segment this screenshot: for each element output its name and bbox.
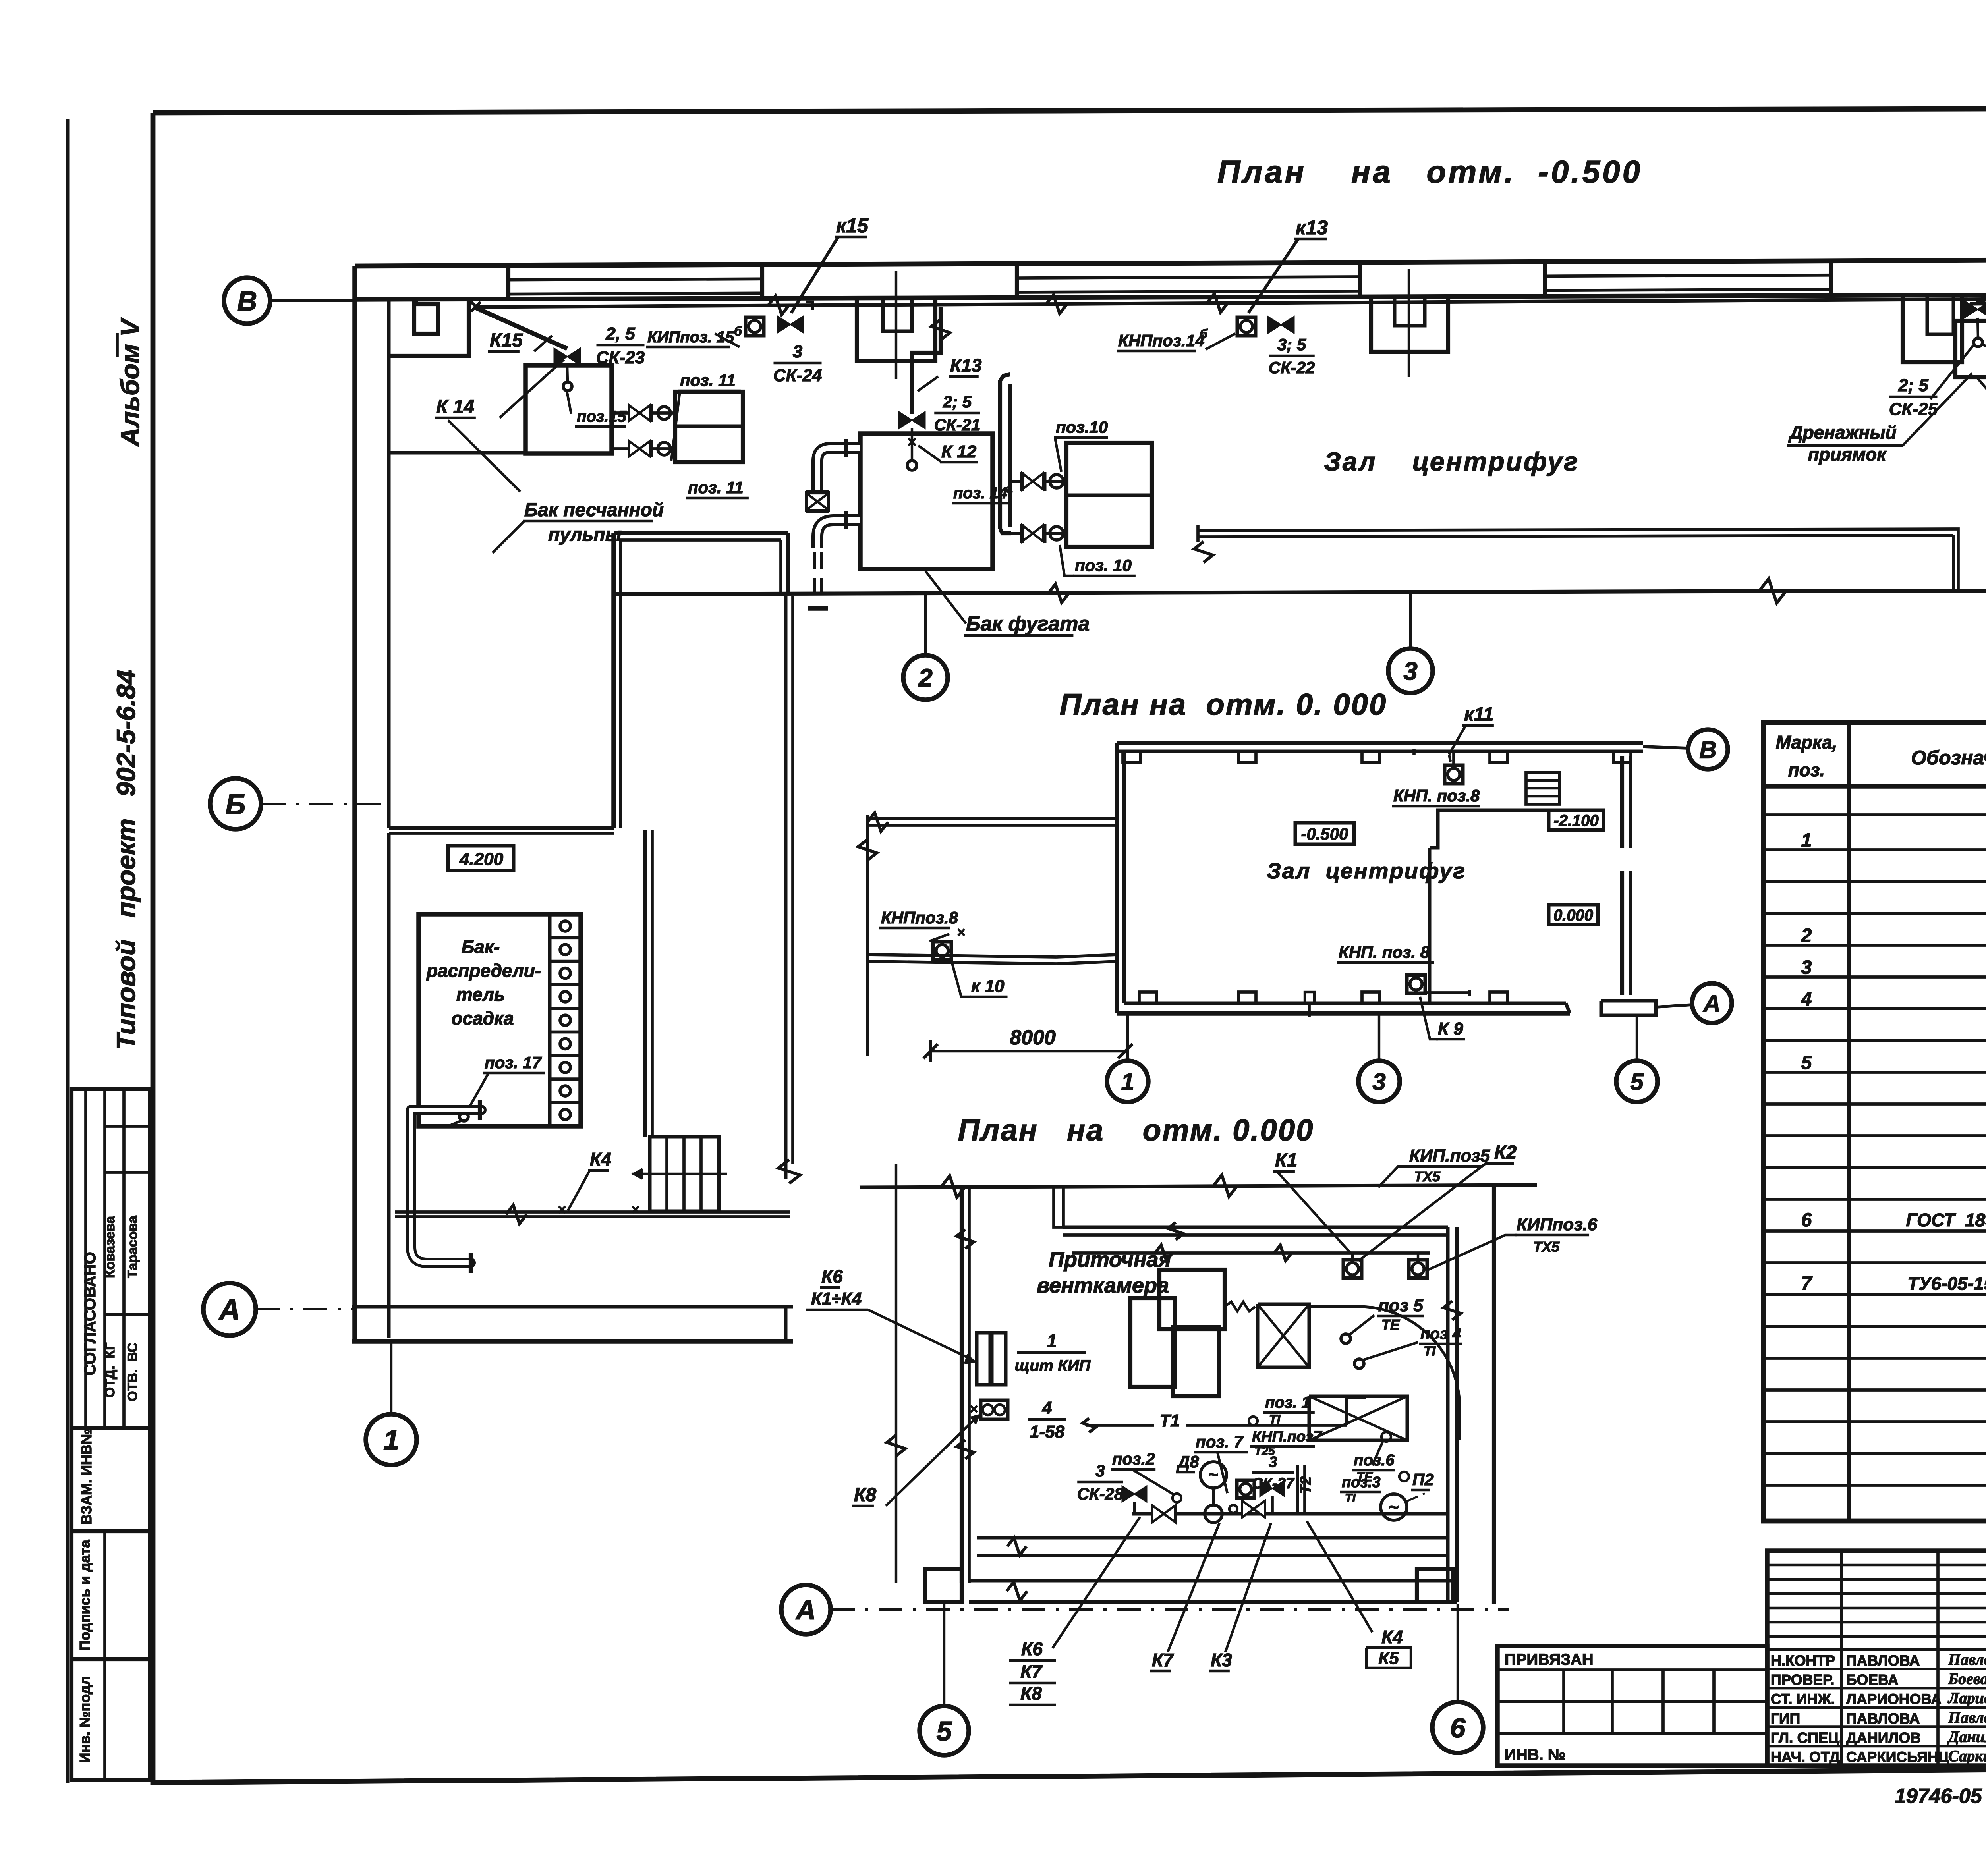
svg-text:4: 4 xyxy=(1042,1398,1052,1418)
svg-text:КИПпоз.6: КИПпоз.6 xyxy=(1517,1215,1598,1234)
column tick at bottom center xyxy=(1308,1003,1311,1017)
sheet outer edge line xyxy=(66,119,70,1783)
dash-dot equipment boundary xyxy=(1374,1513,1446,1515)
svg-text:Зал центрифуг: Зал центрифуг xyxy=(1324,447,1579,476)
svg-text:Н.КОНТР: Н.КОНТР xyxy=(1771,1652,1835,1669)
right wall segments xyxy=(1620,756,1624,848)
duct with cross xyxy=(1258,1304,1309,1367)
svg-text:Д8: Д8 xyxy=(1177,1452,1199,1471)
svg-text:4.200: 4.200 xyxy=(459,849,504,869)
svg-text:ДАНИЛОВ: ДАНИЛОВ xyxy=(1846,1729,1921,1746)
svg-text:поз.10: поз.10 xyxy=(1056,418,1108,436)
bottom wall column marks xyxy=(1139,992,1157,1003)
svg-text:К7: К7 xyxy=(1152,1650,1174,1670)
supply fan unit blocks xyxy=(1159,1270,1225,1329)
window jamb dividers xyxy=(506,266,510,299)
pipe поз.17 (hook shape) xyxy=(411,1105,481,1115)
svg-text:А: А xyxy=(795,1594,816,1625)
svg-text:БОЕВА: БОЕВА xyxy=(1846,1672,1899,1688)
svg-text:К3: К3 xyxy=(1211,1650,1232,1670)
cable drop к СК-21 xyxy=(912,307,941,414)
svg-text:К6: К6 xyxy=(1021,1639,1043,1659)
svg-text:Обозначение: Обозначение xyxy=(1911,747,1986,769)
svg-text:щит КИП: щит КИП xyxy=(1015,1357,1091,1374)
svg-text:ПРОВЕР.: ПРОВЕР. xyxy=(1771,1672,1834,1688)
svg-text:Приточная: Приточная xyxy=(1049,1248,1171,1272)
elevation label 0.000 xyxy=(1549,905,1598,924)
svg-text:ГЛ. СПЕЦ.: ГЛ. СПЕЦ. xyxy=(1771,1729,1843,1746)
А axis circle right xyxy=(1692,983,1732,1023)
svg-text:б: б xyxy=(734,324,742,338)
А axis circle bottom xyxy=(781,1585,831,1634)
svg-text:ТІ: ТІ xyxy=(1269,1412,1281,1426)
axis circle 5 bottom xyxy=(920,1706,969,1755)
svg-text:Зал центрифуг: Зал центрифуг xyxy=(1267,858,1466,883)
svg-text:Т2: Т2 xyxy=(1298,1476,1314,1494)
inner top-right walls xyxy=(1054,1187,1063,1227)
svg-text:ОТВ. ВС: ОТВ. ВС xyxy=(125,1343,140,1401)
svg-text:Тарасова: Тарасова xyxy=(125,1215,140,1278)
svg-text:7: 7 xyxy=(1801,1273,1813,1294)
small instrument pair xyxy=(981,1400,1008,1419)
wall niche / pit 1 xyxy=(857,299,935,361)
drain pit Дренажный приямок xyxy=(1903,295,1962,362)
svg-text:×: × xyxy=(970,1401,978,1417)
Т1 heating line xyxy=(1086,1424,1154,1427)
middle plan building outline xyxy=(1117,741,1643,745)
svg-text:СК-21: СК-21 xyxy=(934,415,981,434)
svg-text:ПАВЛОВА: ПАВЛОВА xyxy=(1846,1710,1920,1727)
svg-text:2: 2 xyxy=(918,664,933,692)
svg-text:НАЧ. ОТД: НАЧ. ОТД xyxy=(1771,1749,1840,1765)
svg-text:осадка: осадка xyxy=(451,1008,514,1029)
svg-text:К7: К7 xyxy=(1020,1661,1043,1682)
svg-text:к13: к13 xyxy=(1296,216,1328,239)
svg-text:3: 3 xyxy=(1095,1461,1105,1480)
svg-text:Бак песчанной: Бак песчанной xyxy=(524,500,664,521)
svg-text:3: 3 xyxy=(793,342,802,361)
bottom exterior wall left building xyxy=(352,1305,793,1309)
left wall double xyxy=(960,1187,964,1583)
title block small grid xyxy=(1767,1551,1986,1766)
axis marker В left xyxy=(224,278,270,324)
svg-text:П2: П2 xyxy=(1412,1470,1434,1489)
svg-text:К 9: К 9 xyxy=(1438,1019,1463,1038)
svg-text:Бак фугата: Бак фугата xyxy=(966,612,1090,635)
svg-text:поз. 11: поз. 11 xyxy=(680,371,736,390)
axis line 5 xyxy=(895,1164,897,1583)
niche room at left end xyxy=(389,301,469,356)
room below бак фугата: walls xyxy=(611,533,616,828)
cable along corridor xyxy=(1072,1251,1430,1255)
tank бак песчанной пульпы xyxy=(525,365,612,454)
valve СК-28 black xyxy=(1122,1486,1147,1502)
svg-text:Ковазева: Ковазева xyxy=(102,1216,118,1278)
svg-text:Подпись и дата: Подпись и дата xyxy=(77,1540,93,1651)
svg-text:×: × xyxy=(631,1201,639,1218)
svg-text:Альбом V: Альбом V xyxy=(115,317,145,447)
interior vertical wall mid xyxy=(643,830,647,1137)
svg-text:тель: тель xyxy=(456,984,505,1005)
svg-text:×: × xyxy=(957,924,965,940)
svg-text:К5: К5 xyxy=(1378,1648,1399,1668)
svg-text:КИП.поз5: КИП.поз5 xyxy=(1409,1146,1490,1166)
axis circle 6 bottom xyxy=(1432,1702,1483,1753)
top wall column marks xyxy=(1123,751,1140,762)
svg-text:Дренажный: Дренажный xyxy=(1788,422,1896,443)
svg-text:К6: К6 xyxy=(821,1266,843,1287)
svg-text:к 10: к 10 xyxy=(971,977,1005,996)
svg-text:В: В xyxy=(237,286,257,317)
axis circle 3 xyxy=(1378,1013,1380,1062)
svg-text:К1: К1 xyxy=(1275,1150,1297,1171)
valve К15 (2,5/СК-23) xyxy=(554,348,580,365)
circle 2 xyxy=(924,594,927,656)
axis circle 5 xyxy=(1636,1015,1638,1062)
svg-text:×: × xyxy=(558,1201,566,1218)
svg-text:ИНВ. №: ИНВ. № xyxy=(1505,1746,1565,1764)
svg-text:8000: 8000 xyxy=(1010,1026,1056,1049)
bottom plan top wall xyxy=(860,1185,1537,1187)
elevation label -0.500 xyxy=(1295,823,1354,844)
valve pairs right of tank xyxy=(614,411,675,415)
svg-text:поз.: поз. xyxy=(1788,760,1825,780)
svg-text:к15: к15 xyxy=(836,214,869,237)
svg-text:поз.2: поз.2 xyxy=(1112,1449,1155,1468)
elevation label -2.100 xyxy=(1549,810,1603,830)
lower duct with cross xyxy=(1309,1396,1407,1440)
svg-text:План на отм. -0.500: План на отм. -0.500 xyxy=(1217,154,1642,189)
svg-text:Б: Б xyxy=(226,789,246,820)
svg-text:К13: К13 xyxy=(950,355,982,376)
bottom wall of vent chamber xyxy=(969,1579,1457,1583)
block поз.10 xyxy=(1066,443,1152,547)
trench double line xyxy=(1198,529,1953,531)
svg-text:поз. 10: поз. 10 xyxy=(1075,556,1132,575)
svg-text:ГИП: ГИП xyxy=(1771,1710,1800,1727)
svg-text:поз.3: поз.3 xyxy=(1342,1474,1381,1491)
А axis circle left xyxy=(203,1283,256,1336)
pump circle xyxy=(1200,1462,1227,1488)
instrument КНПпоз.8 corridor xyxy=(933,942,951,960)
svg-text:поз. 7: поз. 7 xyxy=(1196,1432,1244,1451)
svg-text:ТІ: ТІ xyxy=(1424,1344,1436,1359)
svg-text:5: 5 xyxy=(1801,1052,1812,1073)
sidebar section dividers xyxy=(84,1089,87,1428)
svg-text:ОТД. КГ: ОТД. КГ xyxy=(102,1343,118,1398)
svg-text:-0.500: -0.500 xyxy=(1301,824,1348,843)
svg-text:ПАВЛОВА: ПАВЛОВА xyxy=(1846,1652,1920,1669)
svg-text:19746-05 46: 19746-05 46 xyxy=(1895,1785,1986,1808)
svg-text:1: 1 xyxy=(1047,1330,1057,1351)
valve СК-25 xyxy=(1965,301,1986,318)
svg-text:СТ. ИНЖ.: СТ. ИНЖ. xyxy=(1771,1691,1835,1707)
svg-text:Бак-: Бак- xyxy=(462,936,500,957)
К7 label xyxy=(1168,1523,1219,1652)
svg-text:2: 2 xyxy=(1801,925,1812,946)
svg-text:А: А xyxy=(218,1293,240,1326)
svg-text:венткамера: венткамера xyxy=(1037,1274,1169,1297)
svg-text:~: ~ xyxy=(1208,1465,1219,1484)
svg-text:ПРИВЯЗАН: ПРИВЯЗАН xyxy=(1505,1651,1594,1668)
instrument КНПпоз.14б xyxy=(1237,317,1256,336)
instrument КНП поз 8 bottom xyxy=(1407,975,1425,993)
svg-text:распредели-: распредели- xyxy=(426,960,541,981)
interior vertical wall right xyxy=(784,596,788,1179)
svg-text:ГОСТ 18599-73: ГОСТ 18599-73 xyxy=(1906,1210,1986,1230)
top exterior wall band: top line xyxy=(355,259,1986,266)
valve rows to block поз.10 xyxy=(1011,480,1066,483)
svg-text:ТХ5: ТХ5 xyxy=(1533,1239,1560,1255)
svg-text:Данил: Данил xyxy=(1947,1727,1986,1745)
svg-text:2; 5: 2; 5 xyxy=(943,392,972,411)
svg-text:В: В xyxy=(1699,737,1716,763)
svg-text:К8: К8 xyxy=(854,1484,877,1505)
svg-text:2, 5: 2, 5 xyxy=(605,324,635,344)
svg-text:6: 6 xyxy=(1801,1210,1812,1231)
tank бак-распределитель xyxy=(419,914,581,1126)
svg-text:ВЗАМ. ИНВ№: ВЗАМ. ИНВ№ xyxy=(78,1428,95,1525)
axis line 6 xyxy=(1457,1604,1459,1702)
svg-text:2; 5: 2; 5 xyxy=(1898,376,1928,395)
svg-text:Типовой проект 902-5-6.84: Типовой проект 902-5-6.84 xyxy=(111,670,141,1050)
tank бак фугата xyxy=(860,434,993,569)
svg-text:5: 5 xyxy=(1630,1069,1644,1095)
svg-text:ТІ: ТІ xyxy=(1345,1492,1356,1505)
svg-text:поз. 1: поз. 1 xyxy=(1265,1394,1310,1411)
svg-text:Павлов: Павлов xyxy=(1948,1650,1986,1668)
top exterior wall band: bottom line xyxy=(355,294,1986,299)
svg-text:3: 3 xyxy=(1801,957,1812,978)
svg-text:ЛАРИОНОВА: ЛАРИОНОВА xyxy=(1846,1691,1942,1707)
piping left of tank xyxy=(817,448,860,492)
svg-text:3; 5: 3; 5 xyxy=(1277,335,1306,354)
cell strip with circles xyxy=(548,914,552,1126)
left building lower room top wall xyxy=(389,826,614,830)
left interior wall line xyxy=(387,299,391,828)
svg-text:ТЕ: ТЕ xyxy=(1381,1316,1400,1333)
corridor instruments xyxy=(1343,1260,1362,1278)
svg-text:1-58: 1-58 xyxy=(1030,1422,1065,1442)
svg-text:1: 1 xyxy=(1801,830,1812,851)
outer corridor wall right xyxy=(1492,1185,1496,1604)
svg-text:СК-25: СК-25 xyxy=(1889,400,1938,419)
svg-text:КНП. поз.8: КНП. поз.8 xyxy=(1393,786,1480,805)
svg-text:КНП. поз. 8: КНП. поз. 8 xyxy=(1339,943,1430,961)
svg-text:0.000: 0.000 xyxy=(1553,907,1593,924)
svg-text:б: б xyxy=(1200,327,1208,341)
cable segment right xyxy=(1970,303,1986,304)
svg-text:ТХ5: ТХ5 xyxy=(1414,1168,1441,1185)
left exterior wall of building xyxy=(352,266,357,1341)
svg-text:1: 1 xyxy=(1121,1069,1134,1095)
svg-text:приямок: приямок xyxy=(1808,444,1887,465)
svg-text:поз 5: поз 5 xyxy=(1378,1296,1423,1315)
svg-text:А: А xyxy=(1702,990,1720,1017)
small room below valve xyxy=(1955,321,1986,377)
svg-text:СК-24: СК-24 xyxy=(773,366,822,385)
block поз.11 xyxy=(675,392,743,462)
svg-text:3: 3 xyxy=(1269,1454,1277,1471)
щит КИП cabinet xyxy=(977,1333,990,1385)
fan volute arc xyxy=(1309,1307,1460,1440)
svg-text:5: 5 xyxy=(937,1716,952,1747)
valve СК-21 xyxy=(899,412,925,428)
ПРИВЯЗАН block xyxy=(1497,1646,1767,1766)
svg-text:К 14: К 14 xyxy=(436,396,474,417)
window glazing segments xyxy=(508,279,762,280)
svg-text:План на отм. 0. 000: План на отм. 0. 000 xyxy=(1060,688,1387,722)
svg-text:-2.100: -2.100 xyxy=(1553,812,1598,830)
valve СК-22 xyxy=(1268,317,1294,333)
Б axis circle xyxy=(210,778,261,829)
К3 label xyxy=(1225,1523,1271,1652)
instrument square xyxy=(1237,1480,1254,1498)
svg-text:К4: К4 xyxy=(590,1149,611,1170)
cable line along wall xyxy=(476,297,1986,307)
svg-text:К15: К15 xyxy=(490,330,523,351)
svg-text:КНПпоз.8: КНПпоз.8 xyxy=(881,908,958,927)
instrument near К15 xyxy=(746,317,764,336)
svg-text:СК-22: СК-22 xyxy=(1269,358,1315,377)
valve black 2 xyxy=(1260,1480,1285,1496)
open bowtie valve 2 xyxy=(1242,1501,1265,1517)
svg-text:поз. 11: поз. 11 xyxy=(688,478,744,497)
svg-text:6: 6 xyxy=(1450,1712,1466,1743)
Т2 riser xyxy=(1296,1465,1299,1513)
circle 3 xyxy=(1409,594,1412,648)
inner passage lines below assembly xyxy=(977,1536,1446,1540)
sidebar stamp column box xyxy=(71,1089,150,1780)
svg-text:План на отм. 0.000: План на отм. 0.000 xyxy=(958,1114,1314,1147)
svg-text:К1÷К4: К1÷К4 xyxy=(811,1289,862,1309)
floor line xyxy=(395,1210,790,1214)
В axis circle xyxy=(1688,730,1728,769)
flex connector xyxy=(1225,1302,1255,1311)
svg-text:К2: К2 xyxy=(1494,1142,1517,1163)
svg-text:СК-28: СК-28 xyxy=(1077,1484,1124,1503)
svg-text:СОГЛАСОВАНО: СОГЛАСОВАНО xyxy=(81,1252,99,1375)
svg-text:поз. 17: поз. 17 xyxy=(485,1053,542,1072)
П2 fan instrument xyxy=(1381,1494,1407,1520)
svg-text:Сарки: Сарки xyxy=(1948,1747,1986,1765)
specification table grid xyxy=(1764,722,1986,1521)
svg-text:Марка,: Марка, xyxy=(1776,732,1837,753)
svg-text:ТУ6-05-1573-72: ТУ6-05-1573-72 xyxy=(1907,1273,1986,1294)
axis circle 1 (left building) xyxy=(390,1341,392,1414)
bottom-right wall stub xyxy=(1601,1001,1656,1015)
svg-text:3: 3 xyxy=(1372,1069,1385,1095)
svg-text:Инв. №подл: Инв. №подл xyxy=(77,1676,93,1763)
instrument КНП поз 8 top xyxy=(1445,765,1463,784)
svg-text:Павлов: Павлов xyxy=(1948,1708,1986,1726)
right wall double xyxy=(1446,1227,1450,1602)
stairs upper right xyxy=(1526,772,1559,804)
svg-text:1: 1 xyxy=(383,1424,399,1456)
axis circle 1 xyxy=(1126,1013,1129,1062)
svg-text:поз 4: поз 4 xyxy=(1420,1325,1461,1343)
svg-text:САРКИСЬЯНЦ: САРКИСЬЯНЦ xyxy=(1846,1749,1949,1765)
svg-text:К4: К4 xyxy=(1381,1627,1403,1647)
elevation 4.200 xyxy=(448,846,514,870)
bottom wall line of hall xyxy=(614,589,1986,594)
bottom wall column stubs xyxy=(925,1569,962,1602)
svg-text:поз.15: поз.15 xyxy=(577,408,627,425)
lower pipe row xyxy=(1132,1512,1446,1516)
svg-text:Боева: Боева xyxy=(1948,1670,1986,1688)
svg-text:×: × xyxy=(469,295,482,318)
svg-text:3: 3 xyxy=(1403,657,1418,685)
wall niche / pit 2 xyxy=(1371,297,1448,352)
svg-text:КНПпоз.14: КНПпоз.14 xyxy=(1118,331,1205,350)
tank room floor line xyxy=(389,451,525,455)
svg-text:к11: к11 xyxy=(1464,704,1493,725)
svg-text:Т1: Т1 xyxy=(1159,1411,1180,1430)
open bowtie valve 1 xyxy=(1152,1505,1175,1522)
leader К6/К7/К8 xyxy=(1053,1517,1140,1648)
left corridor walls xyxy=(867,817,1117,820)
stairs lower xyxy=(650,1137,719,1211)
svg-text:4: 4 xyxy=(1801,989,1812,1010)
vertical pipe by tank right xyxy=(998,380,1002,529)
corridor dimension line xyxy=(866,815,869,1056)
svg-text:пульпы: пульпы xyxy=(548,524,622,545)
К4 / К5 label xyxy=(1307,1521,1372,1632)
svg-text:К 12: К 12 xyxy=(941,442,977,461)
cable drop to К15 valve xyxy=(476,308,567,349)
valve black near СК-24 xyxy=(777,316,804,333)
interior wall right part xyxy=(1428,848,1432,1003)
svg-text:Ларио: Ларио xyxy=(1947,1689,1986,1707)
svg-text:КНП.поз7: КНП.поз7 xyxy=(1252,1428,1323,1445)
svg-text:К8: К8 xyxy=(1020,1683,1042,1704)
